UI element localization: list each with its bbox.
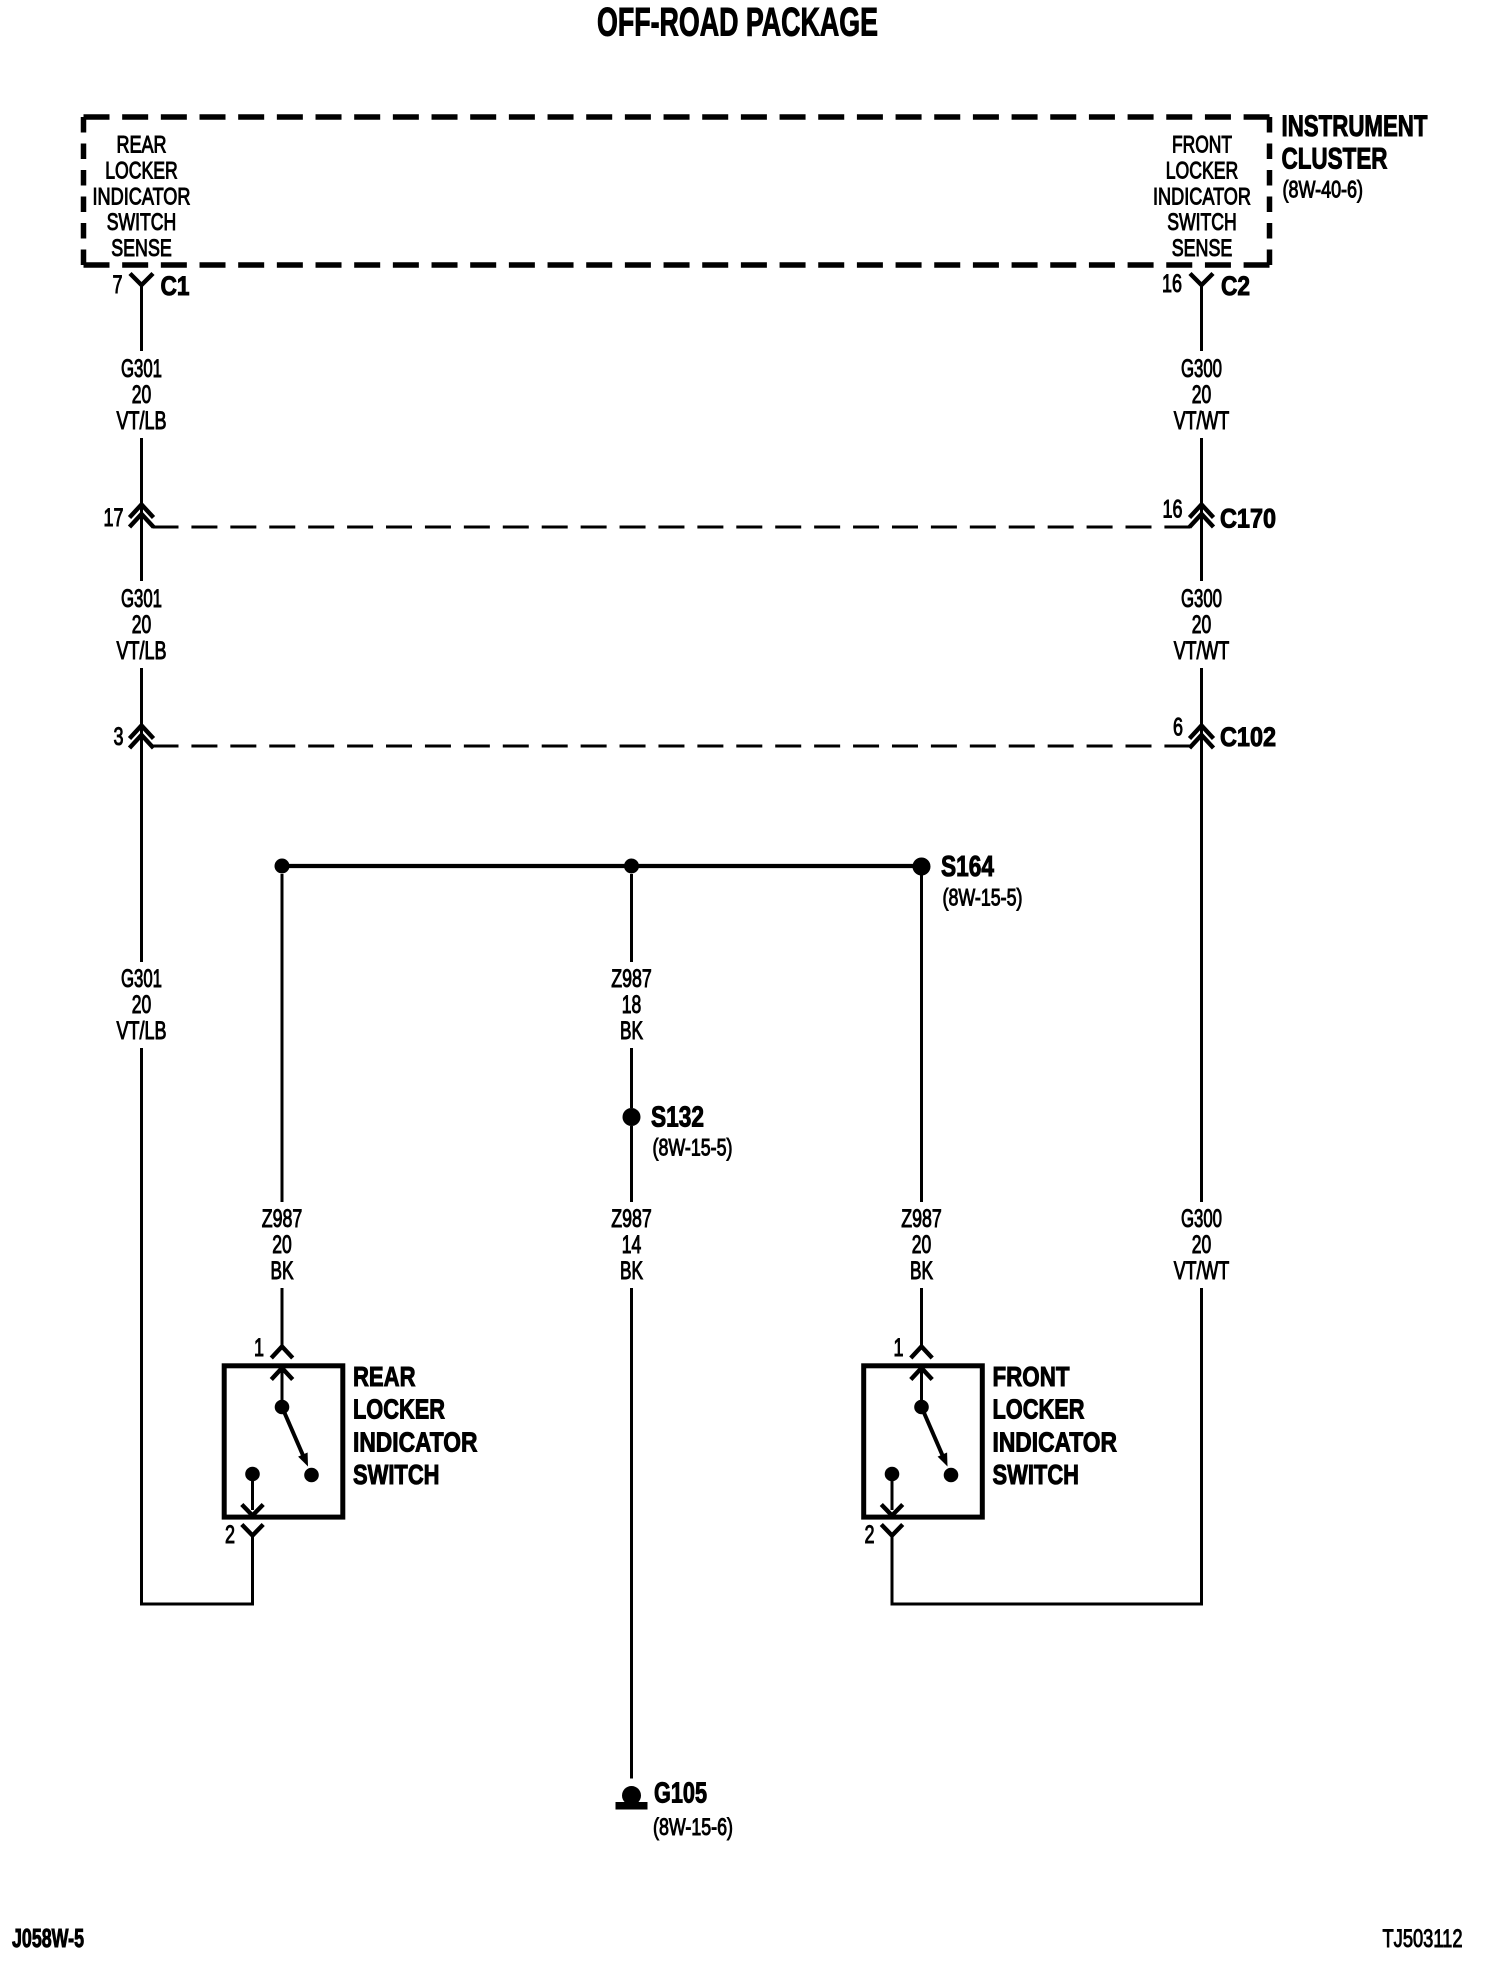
svg-text:S132: S132 [651, 1102, 704, 1134]
rear locker indicator switch box [224, 1366, 343, 1517]
svg-text:Z987: Z987 [611, 1205, 652, 1233]
svg-text:REAR: REAR [353, 1361, 416, 1392]
svg-text:7: 7 [113, 271, 123, 299]
svg-text:G301: G301 [121, 965, 162, 993]
connector C170 pin 16 (right half) [1163, 496, 1277, 534]
svg-text:G300: G300 [1181, 1205, 1222, 1233]
connector pin 1 (rear locker switch) [254, 1334, 293, 1362]
wire G301 segment (C170 to C102) [140, 668, 143, 962]
svg-text:20: 20 [272, 1231, 292, 1259]
wire G300 segment (C170 through C102 down to label) [1200, 668, 1203, 1202]
wire Z987 segment (S132 to label) [630, 1126, 633, 1202]
pin 1 terminal arrow (inside box) [911, 1368, 932, 1402]
node: rear locker indicator switch sense (cluster pin function) [93, 132, 191, 263]
label wire G301 20 VT/LB (lower) [117, 965, 167, 1045]
svg-text:OFF-ROAD PACKAGE: OFF-ROAD PACKAGE [597, 1, 878, 45]
wire Z987 segment (bus to front switch label) [920, 874, 923, 1202]
label wire G300 20 VT/WT (upper) [1174, 355, 1230, 435]
svg-text:BK: BK [910, 1257, 933, 1285]
svg-text:BK: BK [620, 1257, 643, 1285]
wire rear switch return (pin 2 to G301) [140, 1603, 254, 1606]
instrument cluster box (dashed) [84, 117, 1270, 265]
svg-text:20: 20 [912, 1231, 932, 1259]
splice S132 [623, 1102, 733, 1162]
svg-text:VT/LB: VT/LB [117, 407, 167, 435]
wire dashed (C102 in-line connector) [153, 745, 1191, 748]
svg-text:C1: C1 [161, 271, 190, 301]
front locker indicator switch label [993, 1361, 1118, 1490]
label wire G300 20 VT/WT (middle) [1174, 585, 1230, 665]
svg-text:20: 20 [132, 991, 152, 1019]
connector C170 pin 17 (left half) [104, 504, 154, 532]
svg-text:BK: BK [620, 1017, 643, 1045]
svg-text:C170: C170 [1220, 504, 1276, 534]
svg-text:REAR: REAR [117, 132, 167, 159]
svg-text:LOCKER: LOCKER [993, 1394, 1085, 1425]
svg-text:(8W-15-5): (8W-15-5) [943, 885, 1023, 912]
svg-text:VT/WT: VT/WT [1174, 637, 1230, 665]
svg-text:VT/LB: VT/LB [117, 637, 167, 665]
wire G301 segment (C102 to rear switch return) [140, 1048, 143, 1606]
svg-text:INDICATOR: INDICATOR [993, 1426, 1118, 1457]
switch common contact [275, 1400, 290, 1415]
svg-text:Z987: Z987 [901, 1205, 942, 1233]
connector pin 2 (rear locker switch) [225, 1521, 263, 1606]
svg-text:LOCKER: LOCKER [1166, 157, 1239, 184]
connector C102 pin 6 (right half) [1173, 714, 1276, 753]
svg-text:INSTRUMENT: INSTRUMENT [1282, 110, 1428, 143]
svg-text:INDICATOR: INDICATOR [353, 1426, 478, 1457]
wire front switch return (pin 2 to G300) [891, 1603, 1204, 1606]
svg-text:TJ503112: TJ503112 [1383, 1925, 1463, 1953]
svg-text:20: 20 [1192, 1231, 1212, 1259]
label wire Z987 20 BK (front) [901, 1205, 942, 1285]
svg-text:S164: S164 [941, 851, 994, 883]
pin 1 terminal arrow (inside box) [271, 1368, 292, 1402]
node: front locker indicator switch sense (cluster pin function) [1153, 132, 1251, 263]
junction dot (rear branch) [275, 859, 290, 874]
label wire Z987 20 BK (rear) [262, 1205, 303, 1285]
svg-text:20: 20 [132, 611, 152, 639]
connector C1 pin 7 [113, 271, 190, 351]
switch output contact and pin 2 terminal arrow [242, 1467, 263, 1516]
switch blade (movable contact with arrow) [922, 1407, 948, 1467]
switch thrown contact [944, 1468, 959, 1483]
svg-text:2: 2 [865, 1521, 875, 1549]
svg-text:SWITCH: SWITCH [993, 1459, 1080, 1490]
label wire G300 20 VT/WT (lower) [1174, 1205, 1230, 1285]
rear locker indicator switch label [353, 1361, 478, 1490]
svg-text:G301: G301 [121, 585, 162, 613]
svg-text:G300: G300 [1181, 355, 1222, 383]
switch blade (movable contact with arrow) [282, 1407, 308, 1467]
svg-text:17: 17 [104, 504, 124, 532]
label wire Z987 14 BK [611, 1205, 652, 1285]
wire Z987 segment (label to front switch pin 1) [920, 1288, 923, 1347]
svg-text:G301: G301 [121, 355, 162, 383]
wire G301 segment (C1 to C170) [140, 438, 143, 581]
wire G300 segment (label to front switch return) [1200, 1288, 1203, 1606]
svg-text:(8W-15-6): (8W-15-6) [653, 1814, 733, 1841]
svg-text:16: 16 [1162, 270, 1182, 298]
splice S164 [913, 851, 1023, 912]
wire Z987 segment (label to S132) [630, 1048, 633, 1108]
svg-text:18: 18 [622, 991, 642, 1019]
wire splice bus (S164) [282, 864, 922, 868]
svg-text:20: 20 [132, 381, 152, 409]
svg-text:INDICATOR: INDICATOR [93, 183, 191, 210]
wire Z987 segment (bus to rear switch label) [281, 874, 284, 1202]
svg-text:16: 16 [1163, 496, 1183, 524]
svg-text:6: 6 [1173, 714, 1183, 742]
label wire Z987 18 BK [611, 965, 652, 1045]
svg-text:LOCKER: LOCKER [353, 1394, 445, 1425]
svg-text:14: 14 [622, 1231, 642, 1259]
label wire G301 20 VT/LB (middle) [117, 585, 167, 665]
svg-text:Z987: Z987 [611, 965, 652, 993]
svg-text:20: 20 [1192, 381, 1212, 409]
svg-text:INDICATOR: INDICATOR [1153, 183, 1251, 210]
svg-text:1: 1 [894, 1334, 904, 1362]
instrument cluster label (8W-40-6) [1282, 110, 1428, 204]
svg-text:FRONT: FRONT [1172, 132, 1232, 159]
wire G300 segment (C2 to C170) [1200, 438, 1203, 581]
svg-text:20: 20 [1192, 611, 1212, 639]
svg-text:SENSE: SENSE [111, 235, 172, 262]
svg-text:2: 2 [225, 1521, 235, 1549]
svg-text:SWITCH: SWITCH [353, 1459, 440, 1490]
svg-text:SWITCH: SWITCH [1167, 209, 1237, 236]
svg-text:VT/LB: VT/LB [117, 1017, 167, 1045]
svg-text:J058W-5: J058W-5 [12, 1923, 84, 1953]
wire Z987 segment (label to rear switch pin 1) [281, 1288, 284, 1347]
svg-text:1: 1 [254, 1334, 264, 1362]
svg-text:C2: C2 [1221, 271, 1250, 301]
wire Z987 segment (bus to label) [630, 874, 633, 962]
svg-text:(8W-15-5): (8W-15-5) [653, 1135, 733, 1162]
svg-text:BK: BK [271, 1257, 294, 1285]
svg-text:VT/WT: VT/WT [1174, 407, 1230, 435]
wire Z987 segment (label to ground) [630, 1288, 633, 1779]
svg-text:LOCKER: LOCKER [105, 157, 178, 184]
svg-text:G105: G105 [654, 1778, 707, 1810]
connector pin 1 (front locker switch) [894, 1334, 933, 1362]
svg-text:SENSE: SENSE [1172, 235, 1233, 262]
switch output contact and pin 2 terminal arrow [881, 1467, 902, 1516]
connector C102 pin 3 (left half) [114, 723, 154, 751]
connector pin 2 (front locker switch) [865, 1521, 903, 1606]
wire dashed (C170 in-line connector) [153, 526, 1191, 529]
switch thrown contact [304, 1468, 319, 1483]
svg-text:SWITCH: SWITCH [107, 209, 177, 236]
svg-text:FRONT: FRONT [993, 1361, 1070, 1392]
svg-text:C102: C102 [1220, 722, 1276, 752]
label wire G301 20 VT/LB (upper) [117, 355, 167, 435]
switch common contact [914, 1400, 929, 1415]
svg-text:Z987: Z987 [262, 1205, 303, 1233]
ground G105 [616, 1778, 734, 1842]
svg-text:CLUSTER: CLUSTER [1282, 143, 1388, 176]
svg-text:VT/WT: VT/WT [1174, 1257, 1230, 1285]
connector C2 pin 16 [1162, 270, 1250, 351]
front locker indicator switch box [864, 1366, 983, 1517]
svg-text:G300: G300 [1181, 585, 1222, 613]
svg-text:(8W-40-6): (8W-40-6) [1283, 177, 1364, 204]
svg-text:3: 3 [114, 723, 124, 751]
junction dot (middle branch) [624, 859, 639, 874]
